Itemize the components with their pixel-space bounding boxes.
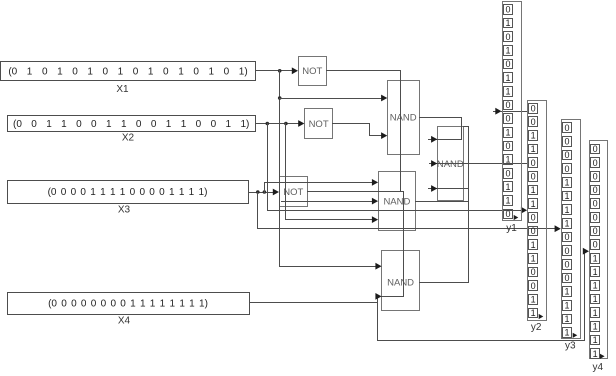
wire right rail vertical [468, 126, 470, 283]
input register X1 box [1, 62, 256, 81]
svg-text:1: 1 [505, 182, 510, 192]
svg-text:0: 0 [505, 100, 510, 110]
y4 bit cell 10 value 1 [591, 267, 600, 277]
svg-text:1: 1 [531, 253, 536, 263]
svg-text:X2: X2 [122, 133, 135, 144]
y1 bit cell 3 value 0 [504, 32, 513, 42]
svg-text:0: 0 [564, 150, 569, 160]
output register y2 container [528, 101, 547, 321]
wire node D to NAND U6 input 3 [285, 216, 378, 223]
svg-text:NOT: NOT [302, 66, 322, 77]
y4 bit cell 3 value 0 [591, 171, 600, 181]
svg-text:1: 1 [593, 322, 598, 332]
wire node E down [257, 192, 259, 229]
NAND gate U5 (small right) [437, 127, 464, 201]
wire NAND U7 output to right rail [419, 282, 469, 284]
svg-text:0: 0 [593, 240, 598, 250]
svg-text:1: 1 [505, 73, 510, 83]
label X4 [118, 316, 131, 327]
y3 bit cell 4 value 0 [563, 164, 572, 174]
svg-text:0: 0 [564, 246, 569, 256]
y2 bit cell 8 value 1 [529, 199, 538, 209]
svg-text:1: 1 [505, 18, 510, 28]
svg-text:y3: y3 [565, 340, 576, 351]
svg-text:0: 0 [564, 123, 569, 133]
NOT gate U2 (inverter for X2) [305, 109, 333, 139]
y4 bit cell 11 value 1 [591, 281, 600, 291]
svg-text:NOT: NOT [309, 119, 329, 130]
svg-text:1: 1 [593, 294, 598, 304]
svg-text:X1: X1 [116, 84, 129, 95]
output register y3 container [562, 120, 581, 339]
wire NAND U6 output to right rail [415, 201, 469, 203]
junction node D on X2 wire [284, 122, 288, 126]
junction node E on X3 wire [256, 190, 260, 194]
svg-text:0: 0 [505, 209, 510, 219]
svg-text:0: 0 [564, 273, 569, 283]
y2 bit cell 14 value 0 [529, 281, 538, 291]
svg-text:0: 0 [531, 117, 536, 127]
svg-text:NAND: NAND [383, 196, 410, 207]
y4 bit cell 16 value 1 [591, 349, 600, 359]
output register y1 container [503, 2, 522, 221]
wire stub into output column y1 [493, 108, 502, 115]
y2 bit cell 6 value 0 [529, 172, 538, 182]
svg-text:1: 1 [531, 240, 536, 250]
svg-text:1: 1 [505, 46, 510, 56]
svg-text:0: 0 [531, 226, 536, 236]
wire bottom rail to output column y4 [377, 248, 589, 341]
wire NOT U3 output right, down, into NAND U7 input 2 [307, 191, 404, 297]
label y4 [593, 362, 604, 373]
y2 bit cell 2 value 0 [529, 117, 538, 128]
y4 bit cell 14 value 1 [591, 322, 600, 332]
svg-text:y2: y2 [531, 322, 542, 333]
wire NOT U1 output right then down [326, 70, 401, 192]
y2 bit cell 12 value 1 [529, 253, 538, 263]
svg-text:(0 1 0 1 0 1 0 1 0 1 0 1 0 1 0: (0 1 0 1 0 1 0 1 0 1 0 1 0 1 0 1) [8, 66, 247, 77]
svg-text:1: 1 [531, 185, 536, 195]
y4 bit cell 15 value 1 [591, 335, 600, 345]
y4 bit cell 12 value 1 [591, 294, 600, 304]
y4 bit cell 5 value 0 [591, 199, 600, 209]
y1 bit cell 7 value 1 [504, 86, 513, 96]
svg-text:0: 0 [505, 168, 510, 178]
label y1 [506, 223, 517, 234]
y1 bit cell 10 value 1 [504, 127, 513, 137]
svg-text:0: 0 [531, 281, 536, 291]
y2 bit cell 11 value 1 [529, 240, 538, 250]
y2 bit cell 4 value 1 [529, 144, 538, 154]
wire right rail top stub [463, 126, 469, 128]
svg-text:0: 0 [564, 137, 569, 147]
wire NAND U6 input 2 from left [281, 198, 378, 205]
junction node F on X3 wire [263, 190, 267, 194]
y3 bit cell 1 value 0 [563, 123, 572, 133]
y3 bit cell 12 value 0 [563, 273, 572, 283]
svg-text:NAND: NAND [390, 113, 417, 124]
y2 bit cell 9 value 0 [529, 213, 538, 223]
wire NAND U4 output loop to NAND U5 input 1 [419, 117, 462, 143]
svg-text:0: 0 [505, 114, 510, 124]
y1 bit cell 16 value 0 [504, 209, 513, 219]
y2 bit cell 7 value 1 [529, 185, 538, 195]
wire X1 output to NOT U1 input [255, 67, 298, 74]
y2 bit cell 3 value 1 [529, 131, 538, 141]
svg-text:1: 1 [531, 131, 536, 141]
svg-text:NAND: NAND [437, 159, 464, 170]
y1 bit cell 12 value 1 [504, 155, 513, 165]
y2 bit cell 1 value 0 [529, 103, 538, 113]
y4 bit cell 9 value 1 [591, 253, 600, 263]
input register X4 box [8, 293, 250, 315]
y3 corner mark [573, 333, 578, 338]
y3 bit cell 15 value 1 [563, 314, 572, 324]
input register X2 box [8, 116, 256, 132]
junction node A on X1 wire [278, 69, 282, 73]
NAND gate U4 (top) [388, 81, 420, 155]
label X3 [118, 205, 131, 216]
svg-text:1: 1 [593, 253, 598, 263]
y4 corner mark [600, 354, 605, 359]
y3 bit cell 2 value 0 [563, 137, 572, 147]
y4 bit cell 7 value 0 [591, 226, 600, 236]
wire X4 output to split corner [249, 302, 378, 304]
svg-text:0: 0 [564, 164, 569, 174]
y2 bit cell 10 value 0 [529, 226, 538, 236]
y3 bit cell 6 value 1 [563, 191, 572, 201]
svg-text:1: 1 [593, 308, 598, 318]
svg-text:1: 1 [531, 294, 536, 304]
y3 bit cell 16 value 1 [563, 328, 572, 338]
y1 bit cell 8 value 0 [504, 100, 513, 110]
wire node F to NAND U6 input 1 [264, 179, 378, 186]
svg-text:0: 0 [505, 5, 510, 15]
svg-text:X3: X3 [118, 205, 131, 216]
svg-text:0: 0 [531, 103, 536, 113]
wire X3 output to NOT U3 input [248, 189, 279, 196]
y1 bit cell 1 value 0 [504, 5, 513, 15]
svg-text:(0 0 0 0 0 0 0 0 1 1 1 1 1 1 1: (0 0 0 0 0 0 0 0 1 1 1 1 1 1 1 1) [48, 299, 208, 310]
svg-text:X4: X4 [118, 316, 131, 327]
svg-text:(0 0 0 0 1 1 1 1 0 0 0 0 1 1 1: (0 0 0 0 1 1 1 1 0 0 0 0 1 1 1 1) [48, 187, 208, 198]
label X2 [122, 133, 135, 144]
y1 bit cell 9 value 0 [504, 114, 513, 124]
wire node B to NAND U4 input 1 [279, 95, 387, 102]
wire node D down [285, 123, 287, 220]
svg-text:y1: y1 [506, 223, 517, 234]
y4 bit cell 8 value 0 [591, 240, 600, 250]
svg-text:(0 0 1 1 0 0 1 1 0 0 1 1 0 0 1: (0 0 1 1 0 0 1 1 0 0 1 1 0 0 1 1) [13, 119, 249, 130]
svg-text:1: 1 [593, 267, 598, 277]
svg-text:0: 0 [593, 212, 598, 222]
svg-text:1: 1 [564, 300, 569, 310]
svg-text:0: 0 [593, 158, 598, 168]
svg-text:1: 1 [564, 314, 569, 324]
NAND gate U6 (middle) [379, 172, 416, 231]
y3 bit cell 7 value 1 [563, 205, 572, 215]
svg-text:0: 0 [505, 141, 510, 151]
y1 bit cell 5 value 0 [504, 59, 513, 69]
svg-text:0: 0 [531, 267, 536, 277]
output register y4 container [590, 141, 608, 359]
svg-text:1: 1 [564, 218, 569, 228]
y3 bit cell 5 value 1 [563, 178, 572, 188]
wire NAND U5 input 3 from right rail [428, 185, 469, 192]
NOT gate U1 (inverter for X1) [299, 57, 327, 86]
svg-text:1: 1 [505, 196, 510, 206]
junction node C on X2 wire [266, 122, 270, 126]
NOT gate U3 (inverter for X3) [280, 177, 308, 207]
y4 bit cell 2 value 0 [591, 158, 600, 168]
wire X4 branch down to bottom rail [377, 302, 379, 341]
y1 bit cell 2 value 1 [504, 18, 513, 28]
svg-text:1: 1 [531, 199, 536, 209]
svg-text:0: 0 [505, 59, 510, 69]
y1 bit cell 4 value 1 [504, 46, 513, 56]
wire node F up [264, 182, 266, 193]
wire X2 output to NOT U2 input [255, 120, 304, 127]
svg-text:0: 0 [564, 232, 569, 242]
junction node B on X1 vertical [278, 96, 282, 100]
wire NAND U5 input 2 and output to column y2 cell [429, 160, 529, 167]
wire X4 branch up into NAND U7 input 2 [375, 293, 381, 303]
svg-text:0: 0 [593, 226, 598, 236]
wire X1 branch into NAND U7 input 1 [279, 263, 382, 270]
svg-text:1: 1 [564, 328, 569, 338]
y4 bit cell 4 value 0 [591, 185, 600, 195]
wire pass-through from y1 to y2 first cell [501, 111, 529, 113]
y1 bit cell 6 value 1 [504, 73, 513, 83]
wire node C to output column y2 [267, 207, 527, 214]
label y3 [565, 340, 576, 351]
y1 bit cell 13 value 0 [504, 168, 513, 178]
y2 bit cell 5 value 0 [529, 158, 538, 168]
svg-text:0: 0 [531, 172, 536, 182]
y1 bit cell 11 value 0 [504, 141, 513, 151]
svg-text:NAND: NAND [387, 277, 414, 288]
y1 corner mark [514, 215, 519, 220]
svg-text:0: 0 [505, 32, 510, 42]
svg-text:0: 0 [593, 144, 598, 154]
y3 bit cell 3 value 0 [563, 150, 572, 160]
svg-text:1: 1 [593, 335, 598, 345]
NAND gate U7 (bottom) [382, 251, 420, 311]
svg-text:1: 1 [593, 349, 598, 359]
y2 bit cell 16 value 1 [529, 308, 538, 318]
y3 bit cell 9 value 0 [563, 232, 572, 242]
y4 bit cell 6 value 0 [591, 212, 600, 222]
y3 bit cell 14 value 1 [563, 300, 572, 310]
input register X3 box [8, 181, 249, 204]
label X1 [116, 84, 129, 95]
svg-text:0: 0 [593, 185, 598, 195]
svg-text:0: 0 [593, 199, 598, 209]
svg-text:y4: y4 [593, 362, 604, 373]
y3 bit cell 11 value 0 [563, 259, 572, 269]
y2 corner mark [539, 314, 544, 319]
svg-text:1: 1 [531, 308, 536, 318]
svg-text:1: 1 [564, 287, 569, 297]
svg-text:NOT: NOT [283, 187, 303, 198]
wire NOT U2 output to NAND U4 input 2 [332, 123, 387, 139]
y2 bit cell 13 value 0 [529, 267, 538, 277]
svg-text:1: 1 [593, 281, 598, 291]
svg-text:1: 1 [505, 127, 510, 137]
wire vertical from node A down to NAND U7 input 1 [279, 70, 281, 267]
y4 bit cell 13 value 1 [591, 308, 600, 318]
wire node C down [267, 123, 269, 211]
y4 bit cell 1 value 0 [591, 144, 600, 154]
y3 bit cell 8 value 1 [563, 218, 572, 228]
svg-text:1: 1 [531, 144, 536, 154]
wire node E to output column y3 [257, 225, 561, 232]
y2 bit cell 15 value 1 [529, 294, 538, 304]
svg-text:0: 0 [564, 259, 569, 269]
y1 bit cell 15 value 1 [504, 196, 513, 206]
svg-text:0: 0 [531, 213, 536, 223]
svg-text:0: 0 [531, 158, 536, 168]
svg-text:0: 0 [593, 171, 598, 181]
y3 bit cell 10 value 0 [563, 246, 572, 256]
svg-text:1: 1 [564, 178, 569, 188]
svg-text:1: 1 [564, 191, 569, 201]
svg-text:1: 1 [505, 155, 510, 165]
label y2 [531, 322, 542, 333]
y1 bit cell 14 value 1 [504, 182, 513, 193]
svg-text:1: 1 [564, 205, 569, 215]
y3 bit cell 13 value 1 [563, 287, 572, 297]
svg-text:1: 1 [505, 86, 510, 96]
